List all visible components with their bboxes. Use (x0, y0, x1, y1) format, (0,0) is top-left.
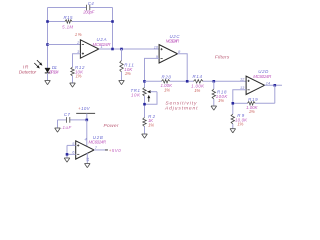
wire top feedback (C4 branch) (48, 7, 113, 9)
svg-text:R15: R15 (64, 15, 74, 20)
wire R18 to ground (213, 99, 215, 106)
wire R18 drop (213, 81, 215, 89)
svg-text:C7: C7 (64, 112, 71, 117)
svg-text:5V0: 5V0 (112, 148, 122, 153)
svg-text:1%: 1% (249, 109, 255, 114)
svg-text:MC6024R: MC6024R (253, 74, 272, 79)
svg-text:C4: C4 (88, 1, 95, 6)
ground under U2B inputs (64, 158, 70, 162)
junction at (66.5,153.85) (66, 153, 69, 156)
junction at (144,80.8) (143, 80, 146, 83)
svg-text:1%: 1% (164, 87, 170, 92)
svg-text:1: 1 (101, 44, 103, 49)
svg-text:R19: R19 (248, 97, 258, 102)
wire U2A non-inverting input (73, 54, 81, 67)
svg-text:Sensitivity: Sensitivity (165, 100, 197, 106)
resistor R18 (212, 89, 215, 99)
resistor R9 (231, 114, 234, 124)
wire U2B non-inverting input (67, 144, 76, 146)
svg-text:1%: 1% (76, 74, 82, 79)
wire feedback rail (233, 102, 275, 104)
ground under R12 (70, 83, 76, 87)
wire C7 to ground (57, 120, 59, 128)
wire power stem to U2B pin 4 (86, 120, 88, 146)
photodiode D1 (45, 68, 50, 80)
resistor R19 (248, 102, 256, 105)
svg-text:1%: 1% (237, 122, 243, 127)
svg-text:Detector: Detector (19, 69, 37, 75)
wire U2C output (178, 54, 188, 82)
wire right vertical of feedback loop (112, 8, 114, 50)
wire U2A output to U2C input (99, 48, 159, 50)
junction at (47,21) (46, 20, 49, 23)
svg-text:10V: 10V (81, 106, 91, 111)
wire U2D output (exits right) (265, 84, 283, 86)
power symbol +10V (76, 113, 95, 120)
ground under R11 (119, 81, 125, 85)
svg-text:Adjustment: Adjustment (164, 106, 198, 112)
wire U2A inverting input (48, 44, 81, 46)
wire pot to R2 (144, 96, 146, 117)
resistor R11 (120, 61, 123, 73)
wire U2B pin 11 to ground (86, 153, 88, 163)
resistor R2 (143, 118, 146, 127)
junction at (233.5,102.8) (232, 102, 235, 105)
svg-text:5.1M: 5.1M (62, 24, 73, 29)
ground under U2B pin 11 (85, 164, 91, 168)
wire input tie-down (66, 145, 68, 157)
wire R11 to ground (121, 72, 123, 80)
op-amp U2B (76, 141, 94, 159)
op-amp U2D (246, 76, 264, 94)
light arrows into D1 (34, 60, 42, 68)
junction at (121,48.5) (120, 48, 123, 51)
junction at (186.7,80.8) (186, 80, 189, 83)
junction at (112,48.5) (111, 48, 114, 51)
junction at (213.3,80.8) (213, 80, 216, 83)
wire R11 drop (121, 49, 123, 61)
svg-text:MC6024R: MC6024R (166, 38, 180, 43)
ground under R18 (211, 106, 217, 110)
svg-text:Filters: Filters (215, 54, 230, 60)
wire power rail to C7 (58, 119, 67, 121)
junction at (47,44) (46, 43, 49, 46)
svg-text:BP104: BP104 (49, 69, 59, 74)
svg-text:11: 11 (85, 157, 90, 161)
ground under R2 (142, 134, 148, 138)
wire left vertical (photodiode to feedback) (47, 8, 49, 69)
label +10V (78, 106, 91, 111)
wire feedback drop (274, 85, 276, 103)
svg-text:1%: 1% (125, 71, 131, 76)
wire R9 to ground (232, 124, 234, 129)
wire U2C inverting input (145, 58, 160, 87)
svg-text:1%: 1% (148, 122, 154, 127)
svg-text:Power: Power (104, 123, 119, 129)
svg-text:10K: 10K (131, 93, 141, 98)
junction at (274.3,85.3) (274, 84, 277, 87)
wire R15 feedback branch (48, 21, 113, 23)
junction at (144,103.7) (143, 103, 146, 106)
svg-text:.1uF: .1uF (61, 125, 72, 130)
junction at (112,21) (111, 20, 114, 23)
wire U2D inverting input (233, 90, 246, 114)
net label +5V0 (105, 148, 121, 153)
wire lower rail (145, 80, 247, 82)
TR1 wiper arrow (147, 90, 157, 93)
potentiometer TR1 (143, 88, 146, 97)
wire R12 to ground (72, 76, 74, 83)
junction at (86.3,119.4) (86, 119, 89, 122)
svg-text:1%: 1% (75, 32, 82, 37)
svg-text:200pF: 200pF (82, 10, 94, 15)
capacitor C4 (86, 5, 89, 10)
ground under D1 (45, 81, 51, 85)
resistor R14 (194, 80, 204, 83)
svg-text:1%: 1% (218, 98, 224, 103)
resistor R15 (65, 20, 72, 23)
wire U2B inverting input (67, 153, 76, 155)
svg-text:1%: 1% (194, 88, 200, 93)
op-amp U2C (159, 45, 177, 63)
svg-text:MC6024R: MC6024R (89, 140, 107, 145)
ground under C7 (55, 128, 61, 132)
TR1 adjustment arrow (147, 95, 150, 102)
resistor R12 (71, 67, 74, 76)
wire R2 to ground (144, 127, 146, 134)
svg-text:R20: R20 (162, 75, 172, 80)
ground under R9 (230, 129, 236, 133)
resistor R20 (162, 80, 170, 83)
wire U2B output (94, 149, 107, 151)
svg-text:R14: R14 (193, 74, 203, 79)
wire TR1 wiper loop (145, 92, 158, 105)
capacitor C7 (66, 117, 69, 123)
op-amp U2A (80, 40, 98, 58)
